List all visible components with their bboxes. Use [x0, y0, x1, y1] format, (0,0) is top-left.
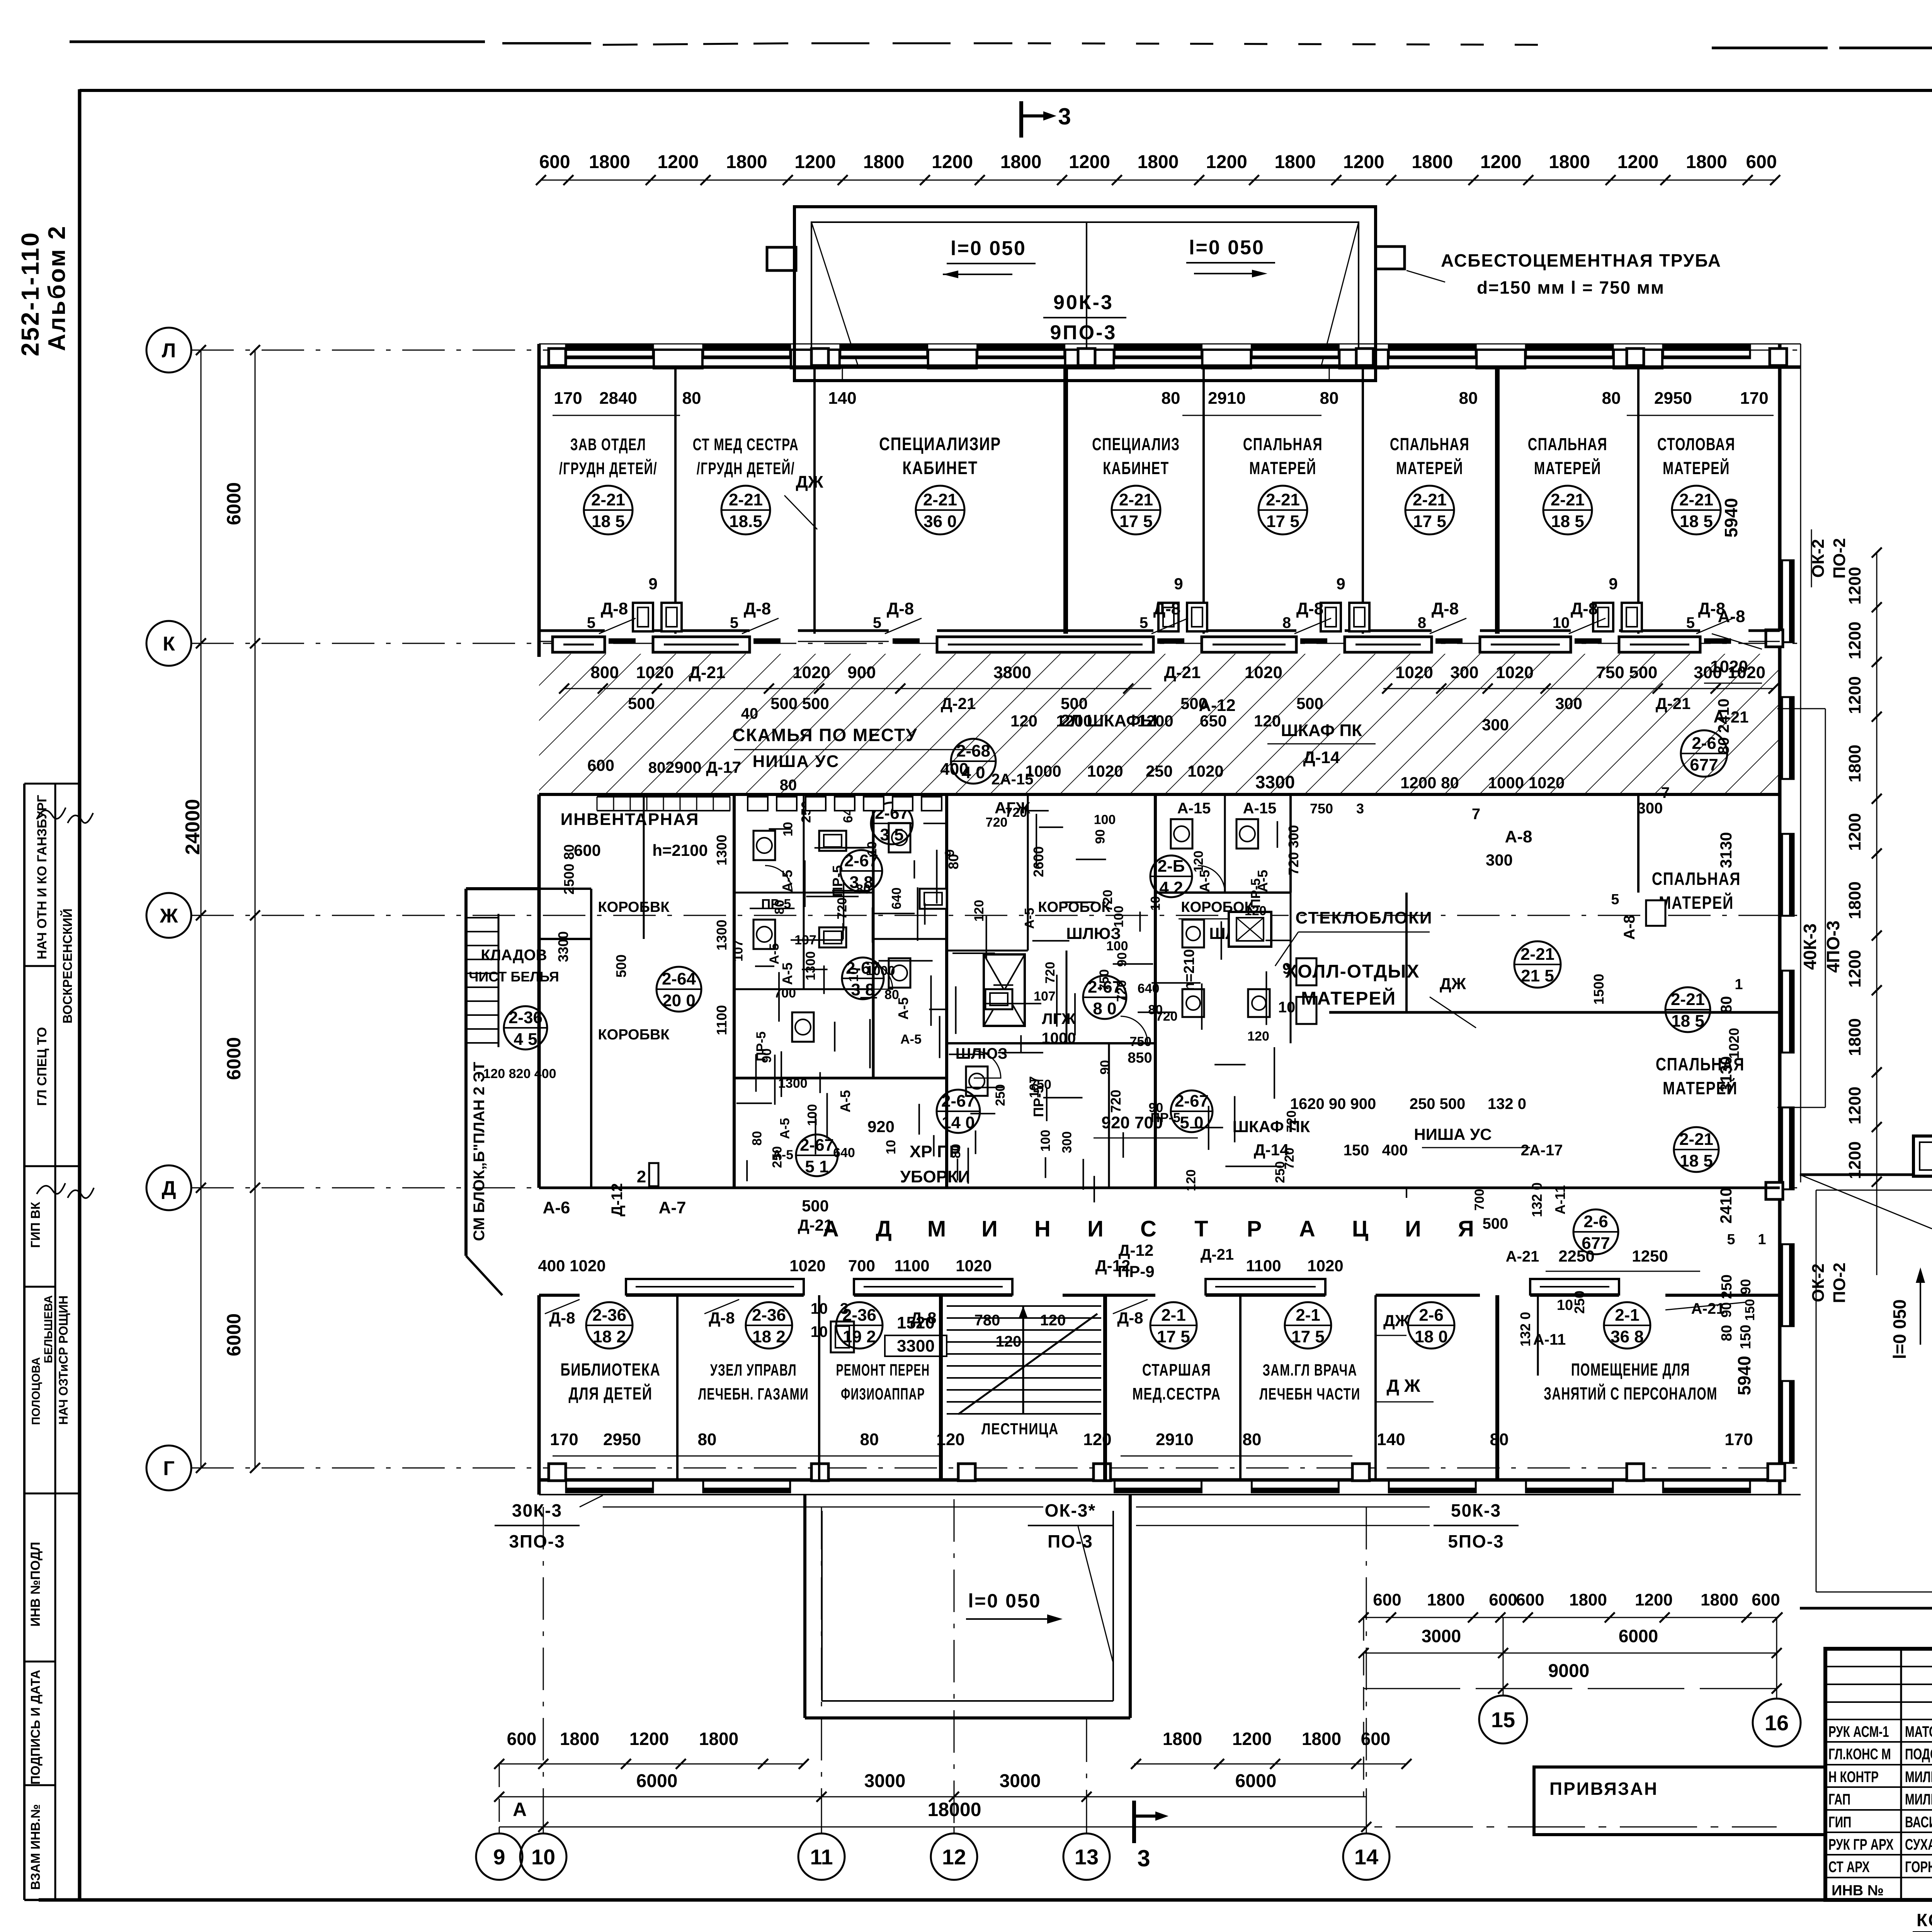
- svg-text:36 8: 36 8: [1611, 1327, 1644, 1346]
- svg-text:/ГРУДН ДЕТЕЙ/: /ГРУДН ДЕТЕЙ/: [559, 458, 657, 478]
- svg-text:1800: 1800: [1845, 745, 1864, 782]
- svg-text:80: 80: [1718, 996, 1735, 1014]
- svg-text:А-15: А-15: [1243, 800, 1277, 817]
- svg-text:МАТЕРЕЙ: МАТЕРЕЙ: [1396, 458, 1463, 478]
- svg-text:120: 120: [1191, 850, 1206, 872]
- svg-text:600: 600: [539, 152, 570, 172]
- svg-text:1200: 1200: [1232, 1729, 1272, 1749]
- svg-text:1200: 1200: [1206, 152, 1247, 172]
- svg-text:9ПО-3: 9ПО-3: [1050, 321, 1117, 344]
- svg-text:18 5: 18 5: [1680, 1151, 1713, 1170]
- svg-text:1000 1020: 1000 1020: [1488, 774, 1565, 792]
- svg-text:90: 90: [1098, 1060, 1112, 1075]
- svg-text:5: 5: [1139, 614, 1148, 631]
- svg-text:Альбом 2: Альбом 2: [44, 224, 70, 351]
- svg-text:720: 720: [1156, 1009, 1178, 1024]
- svg-text:ПР-9: ПР-9: [1117, 1262, 1155, 1281]
- svg-text:100: 100: [1038, 1130, 1053, 1152]
- svg-text:100: 100: [805, 1104, 820, 1126]
- svg-text:А-5: А-5: [837, 1090, 853, 1112]
- svg-text:Ж: Ж: [160, 905, 179, 927]
- svg-text:17 5: 17 5: [1157, 1327, 1190, 1346]
- svg-text:А-5: А-5: [1022, 908, 1037, 929]
- svg-text:ДЖ: ДЖ: [796, 473, 823, 492]
- svg-text:8 0: 8 0: [1093, 999, 1116, 1018]
- svg-text:АСБЕСТОЦЕМЕНТНАЯ ТРУБА: АСБЕСТОЦЕМЕНТНАЯ ТРУБА: [1441, 250, 1721, 270]
- svg-text:30К-3: 30К-3: [512, 1500, 562, 1520]
- svg-text:Д-21: Д-21: [1201, 1246, 1234, 1263]
- svg-text:Д-8: Д-8: [709, 1309, 735, 1327]
- svg-text:40: 40: [741, 705, 759, 722]
- svg-text:2-21: 2-21: [1679, 1130, 1713, 1149]
- svg-text:9000: 9000: [1548, 1661, 1590, 1681]
- svg-text:750: 750: [1129, 1034, 1151, 1049]
- svg-text:1020: 1020: [1395, 663, 1433, 682]
- svg-text:1200: 1200: [1845, 813, 1864, 851]
- svg-text:l=0 050: l=0 050: [951, 237, 1026, 260]
- svg-text:1020: 1020: [1726, 1028, 1742, 1059]
- svg-text:80: 80: [856, 882, 871, 897]
- svg-text:500: 500: [1296, 694, 1323, 713]
- svg-text:80: 80: [860, 1430, 879, 1449]
- svg-text:3 5: 3 5: [880, 825, 903, 844]
- svg-text:А-8: А-8: [1621, 915, 1638, 940]
- svg-text:ВОСКРЕСЕНСКИЙ: ВОСКРЕСЕНСКИЙ: [60, 908, 75, 1024]
- svg-text:21 5: 21 5: [1521, 966, 1554, 985]
- svg-text:5: 5: [730, 614, 738, 631]
- svg-text:Д-12: Д-12: [609, 1183, 626, 1216]
- svg-text:18 5: 18 5: [1680, 512, 1713, 531]
- svg-text:Д: Д: [876, 1216, 891, 1242]
- svg-text:ХОЛЛ-ОТДЫХ: ХОЛЛ-ОТДЫХ: [1285, 961, 1420, 982]
- svg-text:А-6: А-6: [543, 1198, 570, 1217]
- svg-text:ГАП: ГАП: [1828, 1791, 1850, 1808]
- svg-text:14: 14: [1354, 1845, 1378, 1869]
- svg-text:24000: 24000: [182, 799, 204, 855]
- svg-text:5: 5: [587, 614, 595, 631]
- svg-text:2950: 2950: [603, 1430, 641, 1449]
- svg-text:2-1: 2-1: [1615, 1306, 1639, 1325]
- svg-text:10: 10: [1557, 1297, 1573, 1313]
- svg-text:1300: 1300: [714, 835, 730, 866]
- svg-text:1620 90 900: 1620 90 900: [1290, 1095, 1376, 1112]
- svg-text:Д-8: Д-8: [1117, 1309, 1143, 1327]
- svg-text:1800: 1800: [1274, 152, 1316, 172]
- svg-text:1800: 1800: [1412, 152, 1453, 172]
- svg-text:500: 500: [1061, 694, 1088, 713]
- svg-text:150: 150: [1743, 1299, 1757, 1321]
- svg-text:1200: 1200: [1635, 1590, 1673, 1609]
- svg-text:2А-17: 2А-17: [1521, 1142, 1563, 1159]
- svg-text:h=2100: h=2100: [652, 841, 708, 859]
- svg-text:700: 700: [774, 986, 796, 1000]
- svg-text:1200: 1200: [1845, 621, 1864, 659]
- svg-text:ПО-2: ПО-2: [1830, 1263, 1849, 1303]
- svg-text:90К-3: 90К-3: [1053, 291, 1114, 314]
- svg-text:ПО-3: ПО-3: [1048, 1531, 1093, 1551]
- svg-text:l=0 050: l=0 050: [1189, 236, 1265, 259]
- svg-text:Д-21: Д-21: [1656, 694, 1691, 713]
- svg-text:132 0: 132 0: [1529, 1182, 1545, 1217]
- svg-text:МАТЕРЕЙ: МАТЕРЕЙ: [1663, 458, 1730, 478]
- svg-text:17 5: 17 5: [1291, 1327, 1325, 1346]
- svg-text:8: 8: [1418, 614, 1426, 631]
- svg-text:10: 10: [531, 1845, 555, 1869]
- svg-text:170: 170: [554, 389, 582, 408]
- svg-text:140: 140: [828, 389, 856, 408]
- svg-text:5ПО-3: 5ПО-3: [1448, 1531, 1504, 1551]
- svg-text:Т: Т: [1194, 1216, 1208, 1242]
- svg-text:ВЗАМ ИНВ.№: ВЗАМ ИНВ.№: [28, 1804, 43, 1890]
- svg-text:720: 720: [1114, 980, 1129, 1002]
- svg-text:18.5: 18.5: [729, 512, 762, 531]
- svg-text:1000: 1000: [1042, 1030, 1076, 1047]
- svg-text:МАТЕРЕЙ: МАТЕРЕЙ: [1249, 458, 1316, 478]
- svg-text:720: 720: [1108, 1090, 1124, 1113]
- svg-text:140: 140: [1377, 1430, 1405, 1449]
- svg-text:1020: 1020: [1245, 663, 1282, 682]
- svg-text:700: 700: [848, 1257, 875, 1275]
- svg-text:1800: 1800: [589, 152, 630, 172]
- svg-text:2-36: 2-36: [592, 1306, 626, 1325]
- svg-text:800: 800: [590, 663, 619, 682]
- svg-text:720 300: 720 300: [1286, 825, 1301, 875]
- svg-text:920 700: 920 700: [1101, 1113, 1163, 1132]
- svg-text:6000: 6000: [223, 1037, 245, 1080]
- svg-text:90: 90: [1115, 952, 1129, 967]
- svg-text:80 2410: 80 2410: [1715, 699, 1732, 755]
- svg-text:6000: 6000: [1235, 1771, 1277, 1791]
- svg-text:12: 12: [942, 1845, 966, 1869]
- svg-text:16: 16: [1765, 1711, 1789, 1735]
- svg-text:100: 100: [1106, 939, 1128, 953]
- svg-text:600: 600: [574, 841, 601, 859]
- svg-text:3000: 3000: [1000, 1771, 1041, 1791]
- svg-text:6000: 6000: [223, 1313, 245, 1356]
- svg-text:КАБИНЕТ: КАБИНЕТ: [1103, 459, 1169, 478]
- svg-text:Д-21: Д-21: [689, 663, 726, 682]
- svg-text:120: 120: [1040, 1312, 1066, 1329]
- svg-text:1200: 1200: [1845, 950, 1864, 988]
- svg-text:3130: 3130: [1717, 832, 1735, 868]
- svg-text:500: 500: [802, 1197, 829, 1215]
- svg-text:677: 677: [1690, 755, 1718, 774]
- svg-text:80: 80: [1490, 1430, 1509, 1449]
- svg-text:КОРОБВК: КОРОБВК: [598, 1027, 670, 1043]
- svg-text:1200: 1200: [1069, 152, 1110, 172]
- svg-text:l=0 050: l=0 050: [968, 1590, 1041, 1612]
- svg-text:9: 9: [493, 1845, 505, 1869]
- svg-text:132 0: 132 0: [1517, 1312, 1533, 1347]
- svg-text:1000: 1000: [866, 964, 895, 978]
- svg-text:250: 250: [993, 1084, 1008, 1106]
- svg-text:ПОДПИСЬ И ДАТА: ПОДПИСЬ И ДАТА: [28, 1670, 43, 1784]
- svg-text:ЧИСТ БЕЛЬЯ: ЧИСТ БЕЛЬЯ: [469, 969, 559, 985]
- svg-text:5: 5: [1611, 891, 1619, 908]
- svg-text:РЕМОНТ ПЕРЕН: РЕМОНТ ПЕРЕН: [836, 1361, 930, 1379]
- svg-text:750: 750: [1310, 801, 1333, 816]
- svg-text:500 500: 500 500: [770, 694, 829, 713]
- svg-text:2-21: 2-21: [1413, 490, 1447, 509]
- svg-text:Д-21: Д-21: [1164, 663, 1201, 682]
- svg-text:А: А: [513, 1799, 527, 1820]
- svg-text:2-36: 2-36: [509, 1008, 543, 1027]
- svg-text:l=0 050: l=0 050: [1889, 1299, 1910, 1359]
- svg-text:1020: 1020: [636, 663, 674, 682]
- svg-text:НАЧ ОЗТиСР РОЩИН: НАЧ ОЗТиСР РОЩИН: [56, 1296, 70, 1425]
- svg-text:2900 Д-17: 2900 Д-17: [665, 758, 741, 776]
- svg-text:2-64: 2-64: [662, 969, 696, 988]
- svg-text:1200: 1200: [1056, 712, 1092, 730]
- svg-text:10: 10: [1278, 999, 1296, 1016]
- svg-text:107: 107: [794, 933, 816, 947]
- svg-text:3300: 3300: [555, 931, 571, 962]
- svg-text:80: 80: [1162, 389, 1180, 408]
- svg-text:600: 600: [587, 756, 614, 774]
- svg-text:640: 640: [1138, 981, 1160, 996]
- svg-text:НИША УС: НИША УС: [1414, 1125, 1492, 1143]
- svg-text:120: 120: [1010, 712, 1037, 730]
- svg-text:ЛЕЧЕБН ЧАСТИ: ЛЕЧЕБН ЧАСТИ: [1259, 1384, 1360, 1403]
- svg-text:ПР-5: ПР-5: [761, 897, 791, 912]
- svg-text:18 2: 18 2: [593, 1327, 626, 1346]
- svg-text:И: И: [1405, 1216, 1421, 1242]
- svg-text:250: 250: [1146, 762, 1173, 780]
- svg-text:ЗАМ.ГЛ ВРАЧА: ЗАМ.ГЛ ВРАЧА: [1263, 1361, 1357, 1379]
- svg-text:400: 400: [940, 760, 968, 779]
- svg-text:2А-15: 2А-15: [992, 771, 1034, 788]
- svg-text:Д-21: Д-21: [941, 694, 976, 713]
- svg-text:М: М: [927, 1216, 946, 1242]
- svg-text:КОПИРОВАЛ: КОПИРОВАЛ: [1917, 1910, 1932, 1930]
- svg-text:600: 600: [1746, 152, 1777, 172]
- svg-text:ОК-3*: ОК-3*: [1045, 1500, 1096, 1520]
- svg-text:Ц: Ц: [1352, 1216, 1368, 1242]
- svg-text:1: 1: [1735, 976, 1743, 993]
- svg-text:2950: 2950: [1654, 389, 1692, 408]
- svg-text:1020: 1020: [1496, 663, 1534, 682]
- svg-text:19 2: 19 2: [843, 1327, 876, 1346]
- svg-text:ГОРЮНОВА: ГОРЮНОВА: [1905, 1859, 1932, 1876]
- svg-text:2-6: 2-6: [1419, 1306, 1444, 1325]
- svg-text:А-5: А-5: [779, 870, 795, 892]
- svg-text:6000: 6000: [223, 482, 245, 525]
- svg-text:2-6: 2-6: [1583, 1212, 1608, 1231]
- svg-text:2-67: 2-67: [1175, 1092, 1209, 1111]
- svg-text:1200: 1200: [1137, 712, 1173, 730]
- svg-text:2-6: 2-6: [1692, 734, 1716, 753]
- svg-text:3300: 3300: [897, 1337, 935, 1355]
- svg-text:600: 600: [1489, 1590, 1517, 1609]
- svg-text:УЗЕЛ УПРАВЛ: УЗЕЛ УПРАВЛ: [710, 1361, 797, 1379]
- svg-text:80: 80: [949, 1144, 963, 1158]
- svg-text:3: 3: [1137, 1845, 1150, 1871]
- svg-text:132 0: 132 0: [1488, 1095, 1526, 1112]
- svg-text:УБОРКИ: УБОРКИ: [900, 1167, 970, 1186]
- svg-text:10: 10: [1148, 896, 1163, 911]
- svg-text:Р: Р: [1247, 1216, 1262, 1242]
- svg-text:НИША УС: НИША УС: [753, 752, 840, 771]
- svg-text:СТАРШАЯ: СТАРШАЯ: [1142, 1361, 1211, 1380]
- svg-text:Д-8: Д-8: [549, 1309, 575, 1327]
- svg-text:20 0: 20 0: [662, 991, 696, 1010]
- svg-text:5940: 5940: [1721, 498, 1741, 537]
- svg-text:1020: 1020: [1187, 762, 1223, 780]
- svg-text:1100: 1100: [714, 1005, 730, 1035]
- svg-text:1020: 1020: [956, 1257, 992, 1275]
- svg-text:2410: 2410: [1717, 1187, 1735, 1223]
- svg-text:1200: 1200: [1343, 152, 1384, 172]
- svg-text:ПРИВЯЗАН: ПРИВЯЗАН: [1549, 1779, 1658, 1799]
- svg-text:1800: 1800: [1569, 1590, 1607, 1609]
- svg-text:250: 250: [1719, 1274, 1735, 1299]
- svg-text:Д-14: Д-14: [1254, 1141, 1289, 1159]
- svg-text:1020: 1020: [793, 663, 830, 682]
- svg-text:1200: 1200: [1617, 152, 1659, 172]
- svg-text:КАБИНЕТ: КАБИНЕТ: [902, 458, 978, 478]
- svg-text:14 0: 14 0: [942, 1113, 975, 1132]
- svg-text:ЛЕСТНИЦА: ЛЕСТНИЦА: [981, 1420, 1059, 1438]
- svg-text:СТОЛОВАЯ: СТОЛОВАЯ: [1657, 435, 1735, 454]
- svg-text:120: 120: [1254, 712, 1281, 730]
- svg-text:170: 170: [550, 1430, 578, 1449]
- svg-text:80: 80: [698, 1430, 717, 1449]
- svg-text:5940: 5940: [1734, 1356, 1754, 1395]
- svg-text:С: С: [1140, 1216, 1156, 1242]
- svg-text:640: 640: [889, 888, 904, 910]
- svg-text:9: 9: [1336, 575, 1345, 593]
- svg-text:4 5: 4 5: [514, 1030, 537, 1049]
- svg-text:1800: 1800: [1302, 1729, 1341, 1749]
- svg-text:2-21: 2-21: [923, 490, 957, 509]
- svg-text:1020: 1020: [1087, 762, 1123, 780]
- svg-text:252-1-110: 252-1-110: [16, 231, 44, 356]
- svg-text:780: 780: [975, 1312, 1000, 1329]
- svg-text:1520: 1520: [897, 1313, 935, 1332]
- svg-text:ЗАВ ОТДЕЛ: ЗАВ ОТДЕЛ: [570, 435, 646, 454]
- svg-text:2-21: 2-21: [591, 490, 625, 509]
- svg-text:720: 720: [1043, 962, 1058, 984]
- svg-text:1300: 1300: [714, 920, 730, 951]
- svg-text:500: 500: [1483, 1215, 1509, 1232]
- svg-text:СПАЛЬНАЯ: СПАЛЬНАЯ: [1243, 435, 1323, 454]
- svg-text:СКАМЬЯ ПО МЕСТУ: СКАМЬЯ ПО МЕСТУ: [732, 725, 917, 745]
- svg-text:ПОМЕЩЕНИЕ ДЛЯ: ПОМЕЩЕНИЕ ДЛЯ: [1571, 1361, 1690, 1380]
- svg-text:СПАЛЬНАЯ: СПАЛЬНАЯ: [1652, 869, 1741, 888]
- svg-text:3: 3: [1356, 801, 1364, 816]
- svg-text:2-21: 2-21: [1119, 490, 1153, 509]
- svg-text:ВАСИНА: ВАСИНА: [1905, 1814, 1932, 1831]
- svg-text:18 5: 18 5: [1671, 1012, 1704, 1031]
- svg-text:600: 600: [507, 1729, 537, 1749]
- svg-text:720: 720: [1005, 805, 1027, 820]
- svg-text:ЗАНЯТИЙ С ПЕРСОНАЛОМ: ЗАНЯТИЙ С ПЕРСОНАЛОМ: [1544, 1383, 1718, 1403]
- svg-text:3000: 3000: [864, 1771, 906, 1791]
- svg-text:А-11: А-11: [1552, 1185, 1568, 1214]
- svg-text:4 2: 4 2: [1159, 878, 1183, 897]
- svg-text:1200 80: 1200 80: [1400, 774, 1459, 792]
- svg-text:2-21: 2-21: [729, 490, 763, 509]
- svg-text:6000: 6000: [636, 1771, 678, 1791]
- svg-text:677: 677: [1582, 1234, 1610, 1253]
- svg-text:80: 80: [682, 389, 701, 408]
- svg-text:7: 7: [1661, 784, 1670, 801]
- svg-text:10: 10: [865, 841, 879, 856]
- svg-text:5: 5: [1686, 614, 1695, 631]
- svg-text:90: 90: [1093, 829, 1107, 844]
- svg-text:10: 10: [884, 1140, 898, 1155]
- svg-text:107: 107: [731, 940, 746, 962]
- svg-text:А-7: А-7: [659, 1198, 686, 1217]
- svg-text:120: 120: [972, 900, 986, 922]
- svg-text:80: 80: [780, 777, 797, 794]
- svg-text:ГИП: ГИП: [1828, 1814, 1851, 1831]
- svg-text:80: 80: [1719, 1325, 1735, 1341]
- svg-text:СТЕКЛОБЛОКИ: СТЕКЛОБЛОКИ: [1296, 908, 1433, 927]
- svg-text:11: 11: [810, 1845, 833, 1869]
- svg-text:1800: 1800: [1845, 881, 1864, 919]
- svg-text:107: 107: [1027, 1076, 1042, 1098]
- svg-text:3130: 3130: [1717, 1056, 1735, 1092]
- svg-text:РУК ГР АРХ: РУК ГР АРХ: [1828, 1836, 1894, 1853]
- svg-text:ГЛ.КОНС М: ГЛ.КОНС М: [1828, 1746, 1891, 1763]
- svg-text:МАТЕРЕЙ: МАТЕРЕЙ: [1534, 458, 1601, 478]
- svg-text:2-36: 2-36: [752, 1306, 786, 1325]
- svg-text:300: 300: [1637, 800, 1663, 817]
- svg-text:А-5: А-5: [777, 1118, 792, 1139]
- svg-text:ШКАФ ПК: ШКАФ ПК: [1281, 721, 1362, 740]
- svg-text:2-68: 2-68: [956, 742, 990, 760]
- svg-text:170: 170: [1740, 389, 1768, 408]
- svg-text:Д-8: Д-8: [1296, 599, 1323, 618]
- svg-text:2600: 2600: [1031, 846, 1046, 877]
- svg-text:120: 120: [1083, 1430, 1111, 1449]
- svg-text:1300: 1300: [778, 1076, 808, 1091]
- svg-text:МАТЕРЕЙ: МАТЕРЕЙ: [1659, 892, 1734, 912]
- svg-text:ДЖ: ДЖ: [1440, 975, 1466, 993]
- svg-text:3000: 3000: [1422, 1626, 1461, 1646]
- svg-text:НАЧ ОТН И КО ГАНЗБУРГ: НАЧ ОТН И КО ГАНЗБУРГ: [35, 795, 49, 959]
- svg-text:Д-14: Д-14: [1303, 748, 1340, 767]
- svg-text:А-5: А-5: [900, 1032, 922, 1047]
- svg-text:Д-21: Д-21: [798, 1216, 833, 1234]
- svg-text:6000: 6000: [1619, 1626, 1658, 1646]
- svg-text:1200: 1200: [1845, 1141, 1864, 1179]
- svg-text:100: 100: [1112, 906, 1126, 928]
- svg-text:5 1: 5 1: [805, 1157, 828, 1176]
- svg-text:1800: 1800: [699, 1729, 738, 1749]
- svg-text:Н КОНТР: Н КОНТР: [1828, 1769, 1879, 1786]
- svg-text:1100: 1100: [1246, 1257, 1281, 1275]
- svg-text:2: 2: [637, 1167, 646, 1186]
- svg-text:500: 500: [613, 954, 629, 978]
- svg-text:1200: 1200: [794, 152, 836, 172]
- svg-text:ЛЕЧЕБН. ГАЗАМИ: ЛЕЧЕБН. ГАЗАМИ: [698, 1384, 809, 1403]
- svg-text:ИНВ №: ИНВ №: [1832, 1883, 1884, 1899]
- svg-text:300: 300: [1450, 663, 1478, 682]
- svg-text:50К-3: 50К-3: [1451, 1500, 1501, 1520]
- svg-text:Д-8: Д-8: [1432, 599, 1459, 618]
- svg-text:СПЕЦИАЛИЗ: СПЕЦИАЛИЗ: [1092, 435, 1180, 454]
- svg-text:КЛАДОВ: КЛАДОВ: [481, 947, 547, 964]
- svg-text:1: 1: [1758, 1231, 1766, 1248]
- svg-text:Г: Г: [163, 1458, 174, 1480]
- svg-text:750: 750: [1097, 969, 1112, 991]
- svg-text:Д-8: Д-8: [887, 599, 914, 618]
- svg-text:2910: 2910: [1208, 389, 1246, 408]
- svg-text:БИБЛИОТЕКА: БИБЛИОТЕКА: [560, 1360, 660, 1379]
- svg-text:1800: 1800: [1686, 152, 1727, 172]
